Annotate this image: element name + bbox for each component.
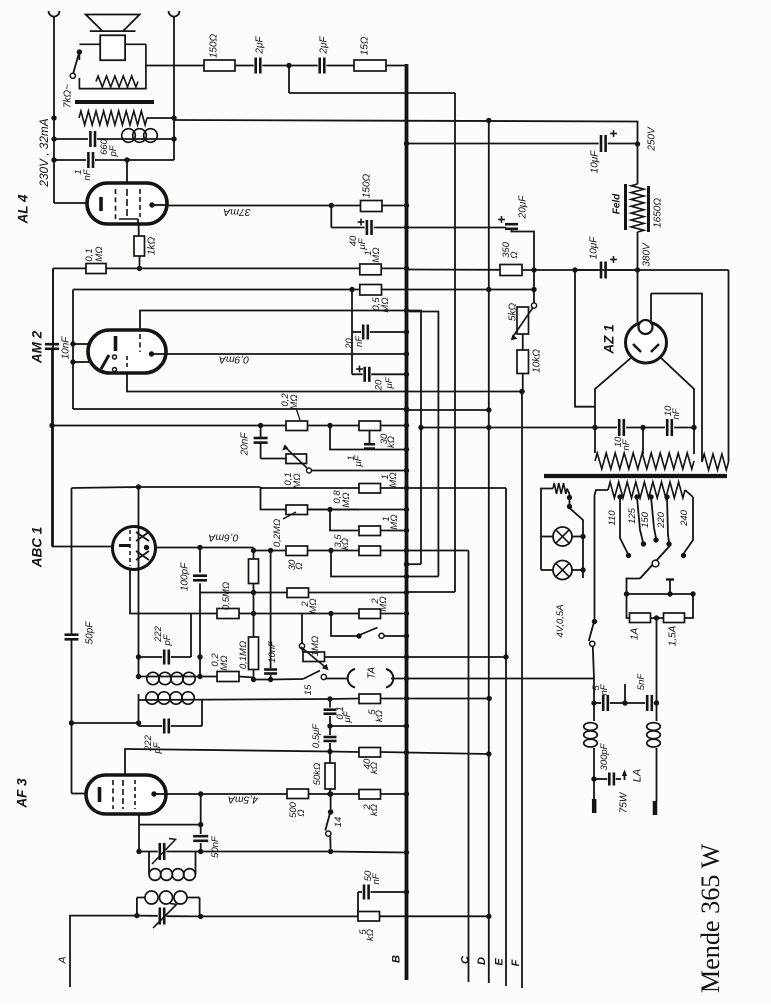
AM2 dash 1: [139, 334, 141, 352]
label 300pF: [599, 742, 610, 770]
pot 5kOhm: [511, 270, 537, 340]
svg-text:300pF: 300pF: [599, 742, 610, 770]
wire row 916 right: [380, 914, 492, 919]
wire row y268 left: [53, 267, 86, 269]
AF3 dash 2: [122, 780, 124, 809]
svg-text:C: C: [460, 955, 472, 964]
capacitor 20nF am2: [349, 287, 409, 340]
label B: [391, 955, 403, 963]
svg-text:50kΩ: 50kΩ: [312, 763, 323, 786]
wire 380V row: [407, 268, 729, 270]
capacitor 5nF b: [647, 695, 659, 711]
capacitor 300pF: [594, 773, 621, 786]
ABC1 anode: [144, 545, 149, 550]
label 10nF v: [267, 640, 278, 663]
label ABC1: [30, 527, 45, 569]
capacitor 40uF: [331, 219, 409, 235]
label 15: [303, 684, 314, 695]
wire am2 diode stub: [70, 359, 89, 364]
svg-text:nF: nF: [671, 407, 682, 419]
svg-text:AZ 1: AZ 1: [602, 324, 617, 354]
label 40kOhm: [362, 758, 380, 774]
svg-text:kΩ: kΩ: [369, 762, 380, 774]
label D: [476, 957, 488, 965]
resistor 30Ohm: [286, 546, 334, 556]
wire am2 loop bottom: [73, 406, 409, 411]
wire fuse leads: [627, 594, 694, 618]
resistor 2MOhm a: [287, 588, 409, 598]
label 0.2MOhm v: [0, 0, 1, 1]
label 1MOhm a: [380, 472, 399, 487]
wire af3 g2 down: [136, 825, 141, 855]
svg-text:Ω: Ω: [509, 251, 520, 258]
svg-text:F: F: [510, 959, 522, 966]
wire E line: [407, 488, 509, 986]
svg-text:nF: nF: [371, 872, 382, 884]
svg-text:10nF: 10nF: [60, 336, 71, 360]
svg-text:MΩ: MΩ: [219, 655, 230, 670]
resistor 0.2MOhm if: [200, 672, 254, 682]
wire row 550 right: [407, 550, 469, 552]
label 500Ohm: [288, 801, 307, 818]
svg-text:μF: μF: [342, 710, 353, 723]
label 660pF: [99, 138, 119, 157]
svg-text:5kΩ: 5kΩ: [507, 303, 518, 322]
label 125: [627, 507, 638, 524]
label 2uF a: [254, 36, 265, 55]
node tone tap: [69, 720, 74, 725]
label 30kOhm: [379, 433, 397, 448]
resistor 1MOhm b: [330, 510, 409, 536]
label 350Ohm: [501, 241, 520, 258]
node 380V x575: [572, 267, 577, 272]
IF1 coil: [136, 672, 200, 684]
label 150: [640, 511, 651, 528]
label 0.8MOhm: [332, 490, 352, 508]
choke coil right: [647, 703, 661, 801]
svg-text:TA: TA: [366, 667, 377, 679]
svg-text:nF: nF: [354, 335, 365, 347]
wire abc1 cathode: [52, 546, 113, 548]
tube AF3: [86, 775, 166, 814]
wire row 410: [404, 407, 492, 412]
wire speaker to 150R: [146, 65, 204, 67]
AZ1 anode diag right: [660, 357, 694, 427]
label 1A: [629, 628, 640, 641]
svg-text:0,2MΩ: 0,2MΩ: [272, 519, 283, 547]
label C: [460, 955, 472, 964]
resistor 40kOhm: [330, 748, 491, 758]
wire TA to mains: [391, 676, 594, 681]
svg-text:50pF: 50pF: [84, 621, 95, 645]
wire af3 cathode: [72, 639, 88, 793]
label 10nF az b: [663, 405, 682, 420]
svg-text:AL 4: AL 4: [16, 194, 31, 225]
wire centre tap: [575, 270, 643, 454]
wire 250V rail: [404, 141, 599, 146]
node bus-zigzag: [51, 115, 56, 120]
label 0.6mA: [208, 531, 238, 543]
capacitor 5nF a: [603, 695, 645, 711]
label 50pF: [84, 621, 95, 645]
svg-text:kΩ: kΩ: [369, 804, 380, 816]
svg-text:MΩ: MΩ: [94, 246, 105, 261]
label 0.2MOhm det: [280, 393, 300, 420]
wire y118 zigzag to right vert: [147, 115, 177, 120]
svg-text:MΩ: MΩ: [371, 247, 382, 262]
node fuse mid: [651, 615, 664, 620]
svg-text:kΩ: kΩ: [365, 929, 376, 941]
label 150Ohm: [208, 33, 219, 58]
AF3 anode: [151, 791, 165, 796]
label 1kOhm: [146, 237, 157, 256]
AL4 grid dash 1: [115, 189, 117, 219]
label 5kOhm: [507, 303, 518, 322]
rect heater winding zigzag: [702, 454, 729, 470]
label 220: [656, 511, 667, 529]
wire am2 grid stub: [70, 341, 89, 346]
svg-text:2μF: 2μF: [254, 36, 265, 55]
AM2 diode dots: [113, 355, 117, 372]
svg-text:MΩ: MΩ: [289, 394, 300, 409]
svg-text:10μF: 10μF: [589, 150, 600, 174]
svg-text:pF: pF: [152, 741, 163, 754]
svg-text:A: A: [57, 956, 69, 964]
wire 2M row b: [302, 611, 359, 616]
voice-coil winding zigzag: [96, 76, 138, 87]
label 1uF det: [346, 454, 364, 467]
label LA: [632, 769, 644, 782]
resistor 0.1MOhm: [86, 264, 106, 274]
terminal hook right (speaker): [169, 11, 180, 17]
resistor 500Ohm: [287, 789, 333, 799]
wire F line: [521, 392, 523, 989]
ABC1 X bottom: [136, 551, 149, 560]
label 5kOhm af: [367, 709, 385, 722]
svg-text:150: 150: [640, 511, 651, 528]
label 222pF b: [143, 734, 163, 754]
svg-text:MΩ: MΩ: [292, 473, 303, 488]
wire anode-branch vertical: [330, 206, 332, 228]
svg-text:1A: 1A: [629, 628, 640, 641]
resistor 150Ohm screen: [331, 201, 409, 212]
wire x138 column: [138, 487, 140, 677]
capacitor 1uF det: [364, 431, 375, 450]
label 10uF 250V: [589, 150, 600, 174]
svg-text:250V: 250V: [646, 126, 657, 152]
wire row 487 start: [72, 484, 261, 489]
wire mains switch column: [592, 495, 597, 624]
wire 100pF column: [193, 548, 207, 680]
label 20nF det: [239, 432, 250, 457]
svg-text:10nF: 10nF: [267, 640, 278, 663]
svg-text:10μF: 10μF: [588, 236, 599, 260]
label 3.5kOhm: [333, 534, 351, 550]
wire am2 loop top row 0.5M: [73, 289, 360, 291]
svg-text:E: E: [493, 958, 505, 966]
mains prong left: [592, 799, 597, 813]
label 20uF: [517, 195, 528, 220]
resistor 15Ohm: [354, 60, 386, 71]
wire pot row 657: [325, 654, 507, 659]
resistor Feld 1650Ohm: [626, 184, 649, 232]
AF3 dash 3: [134, 780, 136, 809]
wire row 576: [331, 551, 438, 580]
resistor 5kOhm b: [358, 892, 380, 921]
resistor 1MOhm grid: [360, 264, 409, 275]
svg-text:20nF: 20nF: [239, 432, 250, 457]
label 0.5uF: [311, 723, 322, 748]
capacitor 50nF b: [358, 885, 409, 900]
svg-text:230V , 32mA: 230V , 32mA: [37, 118, 51, 187]
svg-text:0,5μF: 0,5μF: [311, 723, 322, 748]
svg-text:1650Ω: 1650Ω: [652, 198, 663, 228]
wire row y268 to bus: [106, 267, 360, 269]
svg-text:380V: 380V: [641, 242, 652, 267]
output transformer box: [79, 44, 145, 88]
label 30Ohm: [287, 559, 305, 570]
svg-text:μF: μF: [357, 237, 368, 250]
label 380V: [641, 242, 652, 267]
capacitor 2uF a: [235, 58, 289, 74]
label AL4: [16, 194, 31, 225]
ABC1 dash: [129, 530, 131, 566]
capacitor 1nF: [51, 152, 174, 168]
label 1MOhm pot: [310, 636, 321, 656]
AL4 internal bottom lead: [119, 219, 138, 225]
label 10kOhm: [531, 349, 542, 373]
wire left bus mid (x=53): [52, 268, 54, 546]
label 75W: [618, 791, 629, 813]
ABC1 X top: [136, 532, 149, 541]
resistor 0.5MOhm abc: [217, 609, 302, 619]
AL4 anode: [149, 202, 166, 207]
wire 2M row a: [200, 590, 287, 595]
svg-text:1,5A: 1,5A: [667, 625, 678, 646]
svg-text:2μF: 2μF: [318, 36, 329, 55]
node 250V corner: [635, 141, 640, 146]
pilot winding 4V: [553, 483, 567, 494]
wire row 550: [251, 548, 286, 553]
wire D line: [488, 121, 490, 984]
wire az stub x421: [404, 311, 424, 567]
label 10uF 380V: [588, 236, 599, 260]
label 1MOhm b: [381, 514, 400, 529]
tube AZ1: [626, 320, 667, 363]
label 2uF b: [318, 36, 329, 55]
svg-text:LA: LA: [632, 769, 644, 782]
svg-text:MΩ: MΩ: [388, 472, 399, 487]
label 0.1MOhm v: [238, 641, 249, 669]
svg-text:MΩ: MΩ: [378, 596, 389, 611]
tap 110: [617, 494, 631, 558]
pot 1MOhm box: [301, 647, 329, 670]
node 2uF junction: [286, 63, 291, 68]
svg-text:nF: nF: [82, 168, 93, 180]
label 50nF af: [210, 835, 221, 858]
resistor 2MOhm b: [359, 609, 409, 619]
wire 0.5M grid row: [130, 570, 256, 617]
label 0.1MOhm pot: [283, 472, 303, 488]
label 250V: [646, 126, 657, 152]
svg-text:10kΩ: 10kΩ: [531, 349, 542, 373]
tap 220: [664, 494, 671, 546]
label 20nF am2: [344, 335, 365, 350]
lamp 1: [541, 527, 586, 546]
node az centre tap: [640, 425, 645, 430]
resistor 1kOhm: [134, 225, 145, 271]
wire lamp left rail: [541, 489, 553, 571]
resistor 2kOhm: [331, 790, 410, 800]
label 1MOhm grid: [363, 247, 382, 262]
AZ1 anode diag left: [595, 357, 632, 427]
label AF3: [15, 778, 30, 809]
AM2 grid bar: [114, 336, 118, 351]
AF3 cathode bar: [98, 787, 102, 802]
primary winding zigzag 7k: [79, 111, 147, 125]
svg-text:4V,0,5A: 4V,0,5A: [555, 604, 566, 637]
wire row 425: [49, 423, 286, 428]
AL4 grid dash 2: [126, 189, 128, 219]
trimmer 2: [137, 904, 200, 929]
AL4 cathode bar: [99, 197, 103, 211]
resistor 150Ohm (output): [204, 60, 235, 71]
wire am2 anode row: [165, 351, 409, 356]
label 230V 32mA: [37, 118, 51, 187]
label 0.1uF: [335, 706, 353, 723]
svg-text:14: 14: [333, 817, 344, 828]
label 50nF b: [363, 870, 382, 885]
svg-text:4,5mA: 4,5mA: [228, 793, 258, 805]
AM2 dash 2: [126, 356, 128, 368]
wire 5nF row: [591, 679, 601, 706]
capacitor 50nF af: [193, 794, 208, 854]
label 1.5A: [667, 625, 678, 646]
svg-text:50nF: 50nF: [210, 835, 221, 858]
label 4.5mA: [228, 793, 258, 805]
svg-text:0,6mA: 0,6mA: [208, 531, 238, 543]
AF3 dash 1: [112, 780, 114, 809]
label F: [510, 959, 522, 966]
svg-text:37mA: 37mA: [223, 206, 250, 218]
resistor 10kOhm: [517, 334, 529, 394]
wire TA row: [251, 677, 303, 682]
label A: [57, 956, 69, 964]
label 2MOhm b: [370, 596, 389, 611]
label AM2: [30, 330, 45, 364]
node grid-cap junction: [124, 157, 129, 162]
svg-text:150Ω: 150Ω: [208, 33, 219, 58]
wire tone row: [72, 720, 142, 725]
node 350R-20uF: [531, 267, 536, 272]
svg-text:1kΩ: 1kΩ: [146, 237, 157, 256]
wire row 916 mid: [201, 915, 358, 917]
svg-text:μF: μF: [353, 454, 364, 467]
label AZ1: [602, 324, 617, 354]
wire cap row AZ1: [592, 425, 696, 430]
tank2 coil: [137, 891, 204, 919]
label 150Ohm screen: [361, 173, 372, 198]
wire anode row 37mA: [166, 203, 334, 208]
label 14: [333, 817, 344, 828]
label 5kOhm b: [358, 929, 376, 941]
capacitor 10uF 380V: [575, 256, 638, 278]
selector arm elbow: [624, 579, 640, 597]
capacitor 10nF az a: [619, 419, 624, 436]
resistor 30kOhm: [330, 421, 409, 431]
svg-text:5nF: 5nF: [636, 673, 647, 691]
svg-text:pF: pF: [162, 633, 173, 646]
svg-text:0,9mA: 0,9mA: [219, 353, 249, 365]
label 240: [679, 509, 690, 527]
capacitor 0.1uF: [324, 699, 337, 729]
label 50kOhm: [312, 763, 323, 786]
wire feld column: [637, 144, 639, 270]
label Feld: [611, 193, 622, 214]
wire row 449: [330, 426, 409, 453]
label TA: [366, 667, 377, 679]
capacitor 0.5uF: [324, 726, 337, 754]
svg-text:ABC 1: ABC 1: [30, 527, 45, 569]
label 0.2MOhm if: [210, 653, 230, 671]
svg-text:pF: pF: [108, 144, 119, 157]
AM2 diode plate: [101, 355, 109, 369]
svg-text:AM 2: AM 2: [30, 330, 45, 364]
pot 0.1MOhm: [261, 444, 410, 473]
wire x71 tone line: [71, 488, 73, 635]
label 10nF az a: [613, 436, 632, 451]
wire AZ1 HT lead: [637, 270, 639, 322]
label 2MOhm a: [300, 598, 319, 613]
wire fuse mid down: [656, 618, 658, 703]
svg-text:150Ω: 150Ω: [361, 173, 372, 198]
wire row 700 coil2: [139, 692, 333, 704]
wire row 657 IF: [136, 614, 191, 665]
label 20uF am2: [374, 376, 395, 391]
label 0.5MOhm abc: [221, 582, 232, 610]
label 100pF: [179, 562, 190, 591]
lamp 2: [541, 561, 586, 580]
svg-text:240: 240: [679, 509, 690, 527]
tap 125: [634, 494, 646, 546]
wire left bus top (x=54): [53, 16, 55, 203]
label 10nF am2: [60, 336, 71, 360]
ABC1 cathode bar: [119, 544, 130, 547]
svg-text:110: 110: [607, 510, 618, 526]
svg-text:Feld: Feld: [611, 193, 622, 214]
wire feedback riser: [289, 66, 455, 94]
switch row 636: [331, 614, 409, 639]
label 2kOhm: [362, 804, 380, 816]
transformer core bar: [75, 100, 154, 104]
node 20nF hang: [258, 423, 263, 428]
wire row 487 corner: [261, 487, 360, 510]
main HT bus B (heavy): [405, 64, 409, 980]
selector arm: [640, 545, 671, 579]
wire 4V rect winding right: [728, 270, 730, 462]
label 0.1MOhm: [84, 246, 105, 261]
resistor 0.5MOhm am2: [360, 285, 537, 296]
wire selector row: [627, 591, 696, 596]
wire 15R to bus corner: [386, 65, 407, 67]
tap 240: [681, 497, 693, 558]
coil (AL4 tone): [121, 129, 177, 143]
wire x455 bundle: [407, 93, 456, 592]
label 1nF: [73, 168, 93, 180]
capacitor 20uF am2: [352, 332, 409, 382]
wire ant row1: [139, 851, 158, 853]
wire am2 cathode: [127, 373, 525, 394]
